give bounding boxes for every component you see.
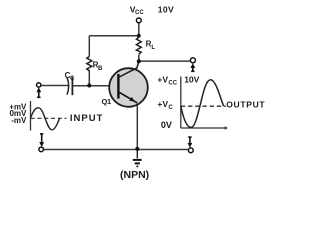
svg-text:B: B <box>98 66 103 72</box>
svg-text:10V: 10V <box>184 75 199 85</box>
svg-text:OUTPUT: OUTPUT <box>226 99 265 109</box>
svg-text:CC: CC <box>168 80 177 86</box>
svg-text:(NPN): (NPN) <box>120 169 149 181</box>
svg-text:C: C <box>168 105 173 111</box>
svg-text:+V: +V <box>157 74 168 84</box>
svg-text:+V: +V <box>157 99 168 109</box>
svg-text:Q1: Q1 <box>102 97 112 106</box>
svg-text:10V: 10V <box>158 5 174 15</box>
svg-text:INPUT: INPUT <box>70 113 104 124</box>
svg-text:C: C <box>70 76 75 82</box>
svg-text:CC: CC <box>135 10 144 16</box>
svg-text:L: L <box>151 45 155 51</box>
svg-text:-mV: -mV <box>11 116 27 125</box>
svg-text:0V: 0V <box>161 120 172 130</box>
